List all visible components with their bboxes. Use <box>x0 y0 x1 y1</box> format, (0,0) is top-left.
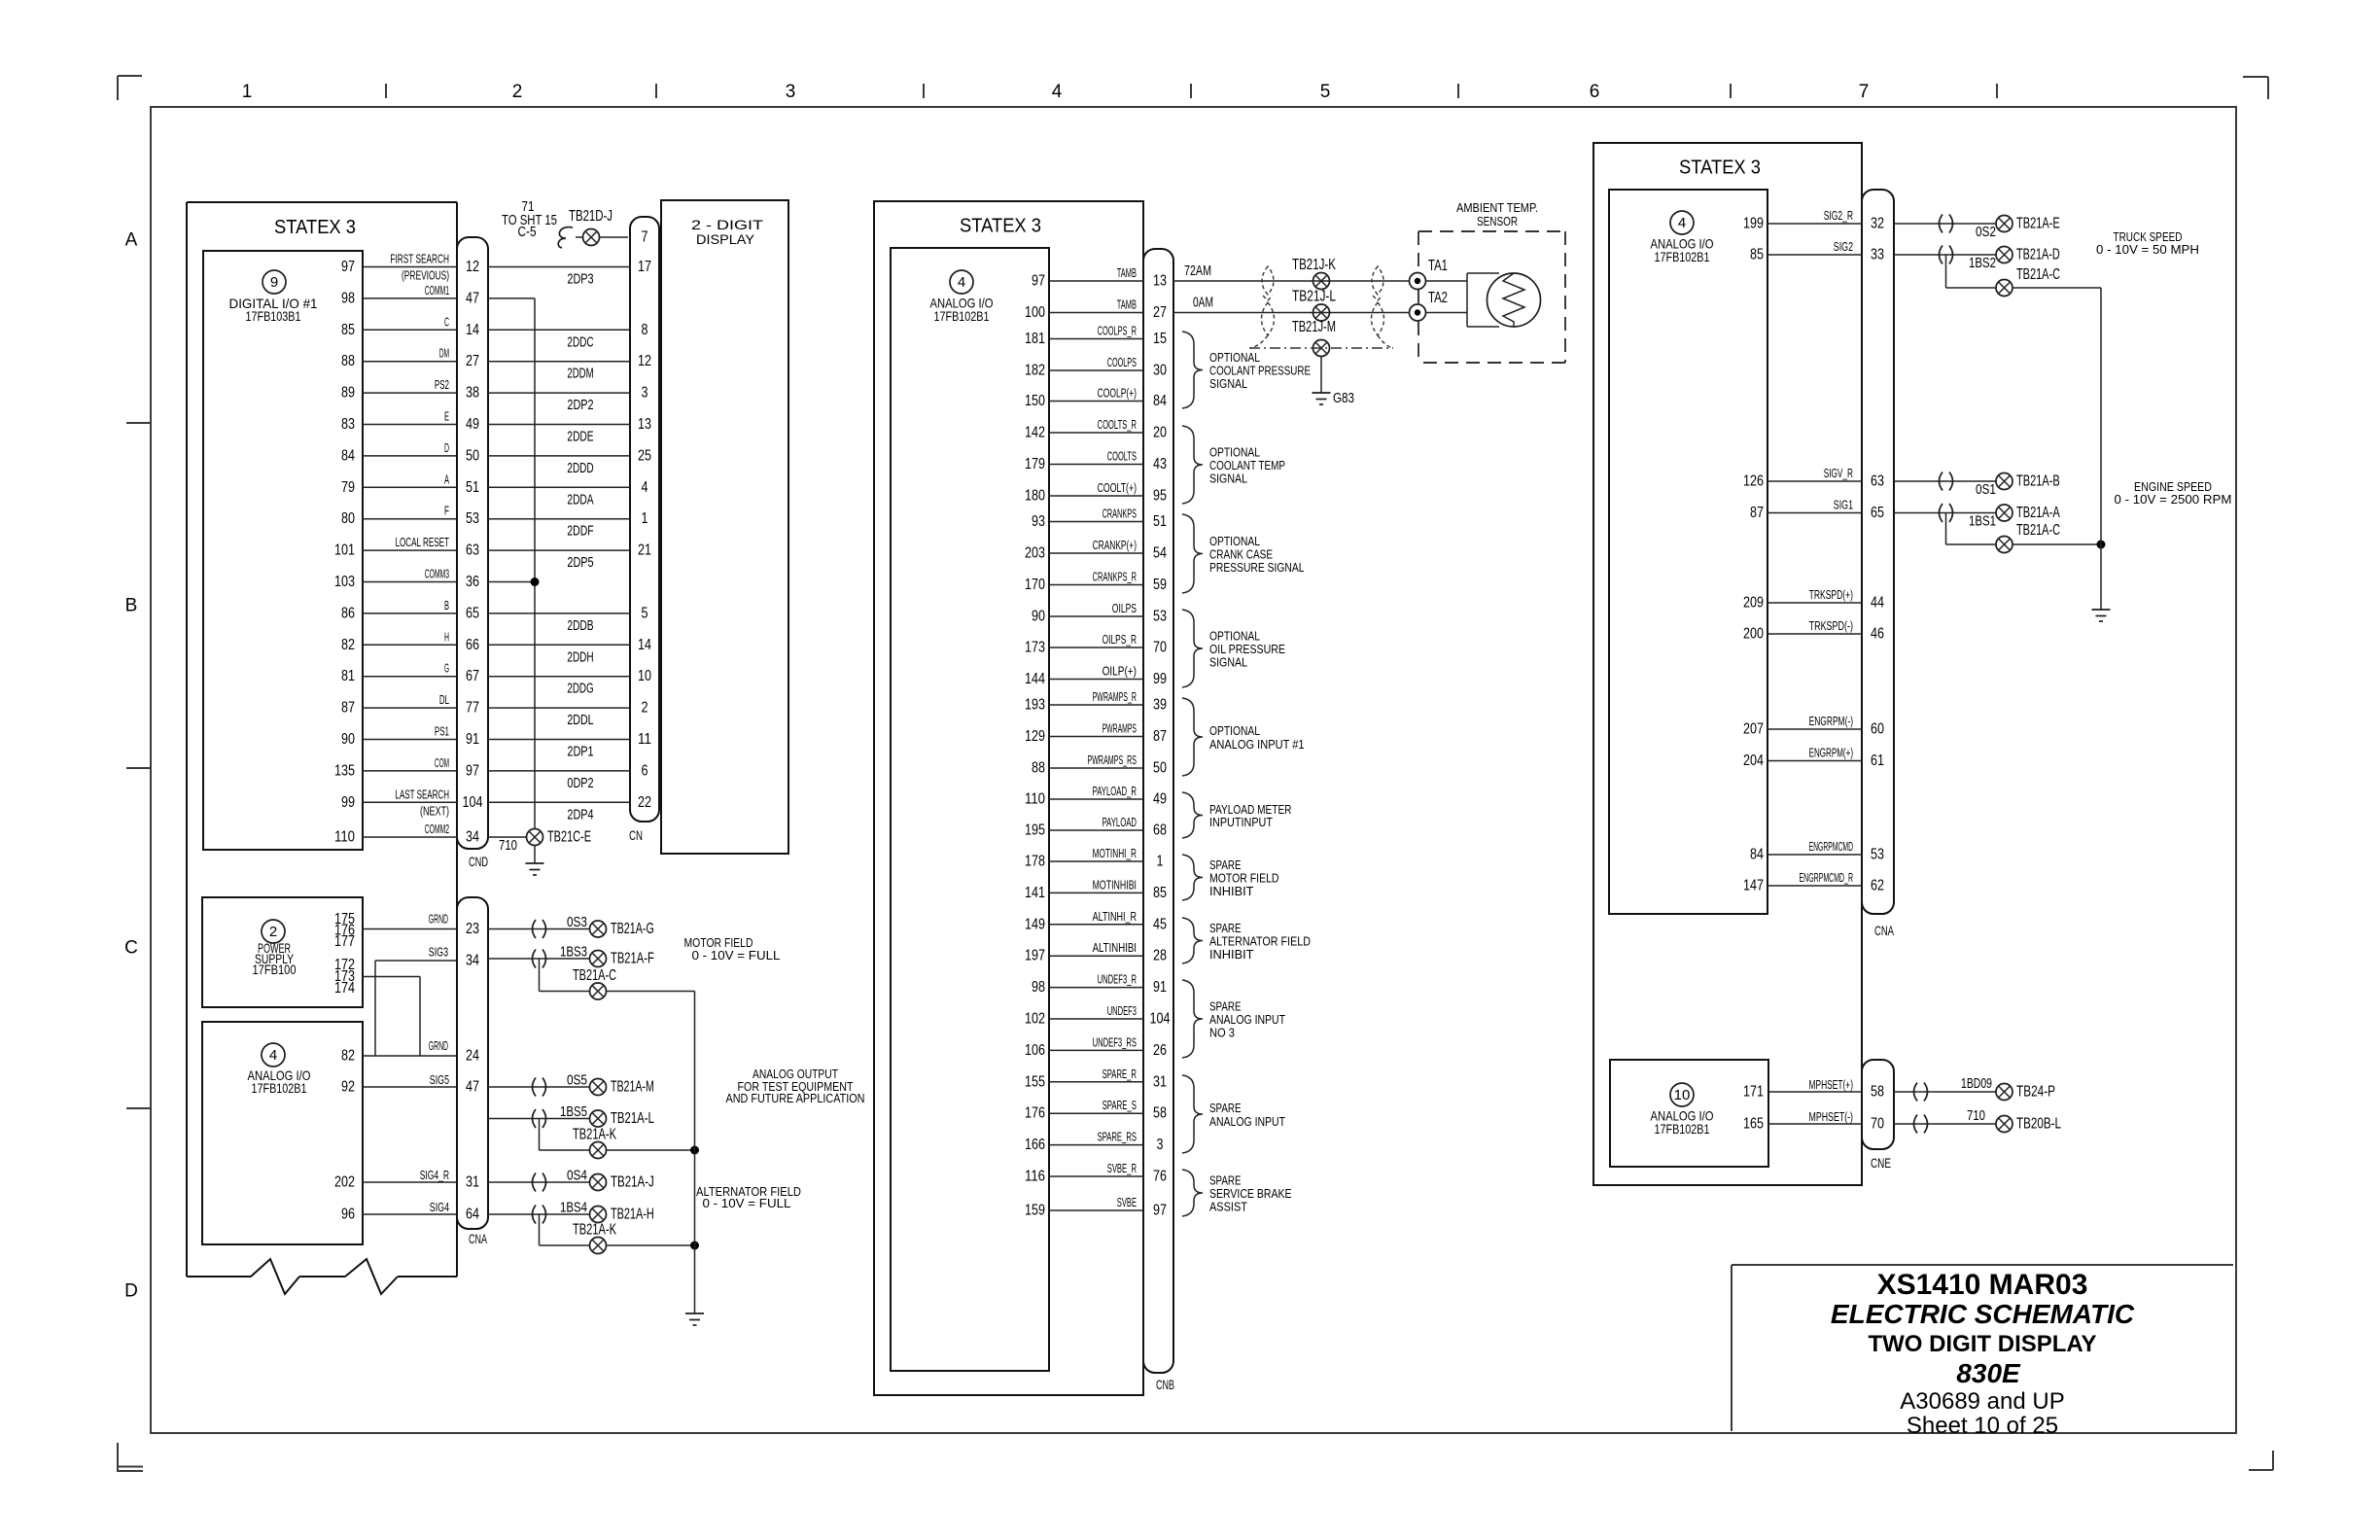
wire PWRAMPS_RS (pin 88 / CNB 50) <box>1032 752 1167 777</box>
svg-text:100: 100 <box>1025 304 1045 321</box>
svg-text:86: 86 <box>341 605 355 621</box>
svg-text:97: 97 <box>341 259 355 275</box>
wire ALTINHIBI (pin 197 / CNB 28) <box>1025 940 1167 964</box>
svg-text:2DDF: 2DDF <box>567 523 593 540</box>
svg-text:209: 209 <box>1743 595 1764 612</box>
svg-text:61: 61 <box>1871 752 1884 769</box>
wire C (pin 85 / CND 14) <box>341 314 648 350</box>
svg-text:12: 12 <box>466 259 479 275</box>
svg-text:50: 50 <box>466 447 479 464</box>
svg-text:17: 17 <box>638 259 651 275</box>
svg-text:25: 25 <box>638 447 651 464</box>
svg-text:181: 181 <box>1025 331 1045 347</box>
lamp TB21A-E (0S2) <box>1894 215 2060 241</box>
svg-text:104: 104 <box>463 794 483 811</box>
label ALTERNATOR FIELD 0-10V <box>696 1184 801 1210</box>
svg-text:67: 67 <box>466 668 479 684</box>
svg-text:2DDC: 2DDC <box>567 333 593 350</box>
svg-text:46: 46 <box>1871 626 1884 643</box>
wire ALTINHI_R (pin 149 / CNB 45) <box>1025 909 1167 933</box>
note SPARE ANALOG INPUT <box>1182 1075 1285 1153</box>
svg-text:1BS4: 1BS4 <box>560 1200 587 1216</box>
svg-text:155: 155 <box>1025 1073 1045 1090</box>
wire G (pin 81 / CND 67) <box>341 661 651 697</box>
svg-text:SIGNAL: SIGNAL <box>1209 655 1247 670</box>
svg-text:149: 149 <box>1025 916 1045 932</box>
note OPTIONAL COOLANT TEMP SIGNAL <box>1182 426 1285 504</box>
svg-text:182: 182 <box>1025 363 1045 379</box>
svg-text:103: 103 <box>334 574 355 590</box>
wire COMM1 (pin 98 / CND 47) <box>341 283 479 307</box>
svg-text:104: 104 <box>1150 1011 1171 1028</box>
IC (4) ANALOG I/O 17FB102B1 (left) <box>202 1022 363 1244</box>
note SPARE MOTOR FIELD INHIBIT <box>1182 855 1279 900</box>
svg-text:65: 65 <box>1871 505 1884 521</box>
svg-text:0DP2: 0DP2 <box>567 775 593 791</box>
svg-text:STATEX 3: STATEX 3 <box>274 217 356 238</box>
label TRUCK SPEED <box>2096 229 2199 257</box>
svg-text:1BS1: 1BS1 <box>1969 513 1996 530</box>
svg-text:PAYLOAD_R: PAYLOAD_R <box>1093 784 1137 798</box>
svg-text:110: 110 <box>334 829 355 846</box>
svg-text:0 - 10V = FULL: 0 - 10V = FULL <box>692 948 781 962</box>
svg-text:32: 32 <box>1871 216 1884 232</box>
svg-text:D: D <box>444 440 449 455</box>
svg-text:B: B <box>444 598 449 612</box>
lamp TB21A-D (1BS2) <box>1894 246 2060 272</box>
note SPARE SERVICE BRAKE ASSIST <box>1182 1170 1292 1216</box>
svg-text:DL: DL <box>439 692 449 707</box>
svg-text:MPHSET(+): MPHSET(+) <box>1809 1077 1854 1092</box>
connector CND <box>457 237 488 869</box>
wire SIG2 (pin 85 / CNA 33) <box>1750 239 1884 263</box>
svg-text:SIGNAL: SIGNAL <box>1209 472 1247 486</box>
svg-text:82: 82 <box>341 637 355 653</box>
svg-text:199: 199 <box>1743 216 1764 232</box>
lamp TB21A-K (upper) <box>540 1119 700 1159</box>
svg-text:INHIBIT: INHIBIT <box>1209 947 1254 962</box>
svg-text:2DDD: 2DDD <box>567 460 593 476</box>
svg-text:12: 12 <box>638 353 651 369</box>
svg-text:14: 14 <box>466 322 479 338</box>
svg-text:Sheet 10 of 25: Sheet 10 of 25 <box>1907 1413 2058 1439</box>
svg-text:2DDB: 2DDB <box>567 617 593 634</box>
svg-text:TB21J-L: TB21J-L <box>1292 289 1336 305</box>
svg-text:TB24-P: TB24-P <box>2016 1084 2055 1101</box>
svg-text:ENGRPM(+): ENGRPM(+) <box>1809 746 1853 760</box>
svg-text:TB21D-J: TB21D-J <box>569 208 612 225</box>
svg-text:21: 21 <box>638 542 651 559</box>
svg-text:82: 82 <box>341 1048 355 1065</box>
svg-text:LOCAL RESET: LOCAL RESET <box>396 535 450 549</box>
svg-text:70: 70 <box>1153 640 1167 656</box>
svg-text:TB21A-K: TB21A-K <box>573 1222 616 1239</box>
svg-text:COOLTS_R: COOLTS_R <box>1098 417 1137 432</box>
svg-text:24: 24 <box>466 1048 479 1065</box>
wire UNDEF3_RS (pin 106 / CNB 26) <box>1025 1034 1167 1059</box>
label ANALOG OUTPUT FOR TEST EQUIPMENT <box>726 1067 865 1105</box>
lamp TB21J-M (shield) <box>1249 319 1393 357</box>
svg-text:58: 58 <box>1153 1105 1167 1122</box>
svg-text:INPUTINPUT: INPUTINPUT <box>1209 815 1273 829</box>
svg-text:174: 174 <box>334 980 355 997</box>
wire F (pin 80 / CND 53) <box>341 504 648 540</box>
svg-text:166: 166 <box>1025 1137 1045 1153</box>
svg-text:53: 53 <box>1153 609 1167 625</box>
svg-text:SIGNAL: SIGNAL <box>1209 376 1247 391</box>
svg-text:NO 3: NO 3 <box>1209 1026 1235 1040</box>
svg-text:33: 33 <box>1871 247 1884 263</box>
svg-text:G: G <box>444 661 449 676</box>
svg-text:1BS3: 1BS3 <box>560 944 587 961</box>
svg-text:193: 193 <box>1025 697 1045 714</box>
svg-text:10: 10 <box>1674 1087 1691 1103</box>
svg-text:20: 20 <box>1153 425 1167 441</box>
svg-text:STATEX 3: STATEX 3 <box>1679 157 1761 179</box>
svg-text:89: 89 <box>341 385 355 402</box>
module STATEX 3 (middle) <box>874 201 1143 1395</box>
svg-text:TB21A-A: TB21A-A <box>2016 505 2060 521</box>
svg-text:0S5: 0S5 <box>567 1072 587 1089</box>
svg-text:17FB100: 17FB100 <box>253 962 297 977</box>
wire TAMB (pin 100 / CNB 27) <box>1025 297 1167 322</box>
svg-text:COOLPS: COOLPS <box>1107 355 1137 369</box>
IC (4) ANALOG I/O 17FB102B1 (right) <box>1609 190 1767 914</box>
svg-text:126: 126 <box>1743 473 1764 490</box>
wire DL (pin 87 / CND 77) <box>341 692 648 728</box>
svg-text:ASSIST: ASSIST <box>1209 1200 1247 1214</box>
svg-text:85: 85 <box>1750 247 1764 263</box>
svg-text:180: 180 <box>1025 488 1045 505</box>
svg-text:30: 30 <box>1153 363 1167 379</box>
IC (4) ANALOG I/O 17FB102B1 (middle) <box>891 248 1049 1371</box>
wire lamp-common vertical (right) <box>2100 288 2102 610</box>
wire PAYLOAD (pin 195 / CNB 68) <box>1025 815 1167 839</box>
connector CN (display) <box>629 217 659 843</box>
svg-text:ENGRPMCMD: ENGRPMCMD <box>1809 839 1853 854</box>
svg-text:63: 63 <box>466 542 479 559</box>
svg-text:2: 2 <box>269 924 277 940</box>
svg-text:2DP4: 2DP4 <box>567 806 593 822</box>
svg-text:COMM3: COMM3 <box>425 567 449 581</box>
lamp TB21J-L <box>1292 289 1336 322</box>
svg-text:4: 4 <box>1678 215 1686 231</box>
svg-text:4: 4 <box>958 274 965 291</box>
svg-text:FIRST SEARCH: FIRST SEARCH <box>390 252 449 266</box>
svg-text:PS2: PS2 <box>435 377 449 392</box>
svg-text:TB21A-C: TB21A-C <box>2016 266 2060 283</box>
svg-text:1: 1 <box>242 82 253 102</box>
lamp TB21J-K <box>1292 257 1336 290</box>
svg-text:MPHSET(-): MPHSET(-) <box>1809 1109 1854 1124</box>
svg-text:1: 1 <box>1157 854 1164 870</box>
svg-text:ANALOG INPUT: ANALOG INPUT <box>1209 1114 1285 1129</box>
svg-text:27: 27 <box>1153 304 1167 321</box>
svg-text:2: 2 <box>642 700 648 717</box>
svg-text:76: 76 <box>1153 1169 1167 1185</box>
svg-text:87: 87 <box>1153 728 1167 745</box>
svg-text:COMM2: COMM2 <box>425 822 449 836</box>
svg-text:CN: CN <box>629 827 643 843</box>
svg-text:0 - 10V = 50 MPH: 0 - 10V = 50 MPH <box>2096 242 2199 257</box>
svg-text:49: 49 <box>1153 791 1167 808</box>
lamp TB20B-L (710) <box>1894 1107 2061 1134</box>
connector CNA (left) <box>457 897 488 1246</box>
module 2-DIGIT DISPLAY <box>661 200 788 854</box>
svg-text:TB21A-B: TB21A-B <box>2016 473 2060 490</box>
svg-text:AND FUTURE APPLICATION: AND FUTURE APPLICATION <box>726 1091 865 1105</box>
svg-text:13: 13 <box>1153 273 1167 290</box>
lamp TB21A-K (lower) <box>540 1214 700 1254</box>
svg-text:SIG2_R: SIG2_R <box>1824 208 1853 223</box>
svg-text:0S4: 0S4 <box>567 1168 587 1184</box>
wire SIGV_R (pin 126 / CNA 63) <box>1743 466 1884 490</box>
svg-text:G83: G83 <box>1333 390 1354 406</box>
wire COMM bus (CND 47/36) vertical <box>488 298 540 829</box>
svg-text:C-5: C-5 <box>518 224 537 240</box>
svg-text:TB21A-M: TB21A-M <box>611 1079 654 1096</box>
wire PAYLOAD_R (pin 110 / CNB 49) <box>1025 784 1167 808</box>
svg-text:CND: CND <box>469 854 488 869</box>
svg-text:2: 2 <box>512 82 523 102</box>
svg-text:2DP5: 2DP5 <box>567 554 593 571</box>
svg-text:176: 176 <box>1025 1105 1045 1122</box>
svg-text:17FB102B1: 17FB102B1 <box>1655 1121 1710 1137</box>
svg-text:38: 38 <box>466 385 479 402</box>
svg-text:3: 3 <box>1157 1137 1164 1153</box>
svg-text:171: 171 <box>1743 1084 1764 1101</box>
svg-text:TB21J-M: TB21J-M <box>1292 319 1336 335</box>
wire TRKSPD(+) (pin 209 / CNA 44) <box>1743 587 1884 612</box>
wire MPHSET(-) (pin 165 / CNE 70) <box>1743 1109 1884 1133</box>
svg-text:50: 50 <box>1153 760 1167 777</box>
lamp TB21D-J (71 TO SHT 15 C-5) <box>502 198 648 248</box>
wire E (pin 83 / CND 49) <box>341 409 651 445</box>
svg-text:A: A <box>444 472 449 486</box>
svg-text:68: 68 <box>1153 822 1167 839</box>
svg-text:DISPLAY: DISPLAY <box>696 231 755 247</box>
svg-text:PRESSURE SIGNAL: PRESSURE SIGNAL <box>1209 560 1305 575</box>
svg-text:1BD09: 1BD09 <box>1961 1075 1992 1092</box>
wire B (pin 86 / CND 65) <box>341 598 648 634</box>
svg-text:2DDG: 2DDG <box>567 681 593 697</box>
svg-text:4: 4 <box>269 1047 277 1064</box>
wire OILPS (pin 90 / CNB 53) <box>1032 601 1167 625</box>
svg-text:TB21A-C: TB21A-C <box>2016 522 2060 539</box>
svg-text:SIG2: SIG2 <box>1834 239 1853 254</box>
svg-text:UNDEF3: UNDEF3 <box>1107 1003 1137 1018</box>
wire 0AM (CNB 27 to TA2) <box>1173 295 1410 313</box>
svg-text:TRKSPD(-): TRKSPD(-) <box>1809 618 1853 633</box>
svg-text:83: 83 <box>341 416 355 433</box>
svg-text:28: 28 <box>1153 948 1167 964</box>
svg-text:ALTINHI_R: ALTINHI_R <box>1093 909 1137 924</box>
svg-text:5: 5 <box>642 605 648 621</box>
svg-text:TB21A-G: TB21A-G <box>611 921 654 937</box>
wire SPARE_R (pin 155 / CNB 31) <box>1025 1067 1167 1091</box>
svg-text:97: 97 <box>466 762 479 779</box>
ground (right lamp common) <box>2092 610 2111 621</box>
lamp TB21A-C (motor field) <box>540 959 695 999</box>
svg-text:101: 101 <box>334 542 355 559</box>
svg-text:PWRAMPS_RS: PWRAMPS_RS <box>1088 752 1137 767</box>
svg-text:GRND: GRND <box>429 912 448 927</box>
svg-text:4: 4 <box>1052 82 1063 102</box>
svg-text:SIGV_R: SIGV_R <box>1824 466 1853 480</box>
IC (10) ANALOG I/O 17FB102B1 <box>1610 1060 1768 1167</box>
svg-text:147: 147 <box>1743 878 1764 894</box>
svg-text:99: 99 <box>341 794 355 811</box>
svg-text:ENGRPM(-): ENGRPM(-) <box>1809 714 1853 728</box>
svg-text:TB21A-C: TB21A-C <box>573 967 616 984</box>
svg-text:9: 9 <box>270 274 278 291</box>
svg-text:SPARE_R: SPARE_R <box>1102 1067 1137 1081</box>
wire LOCAL RESET (pin 101 / CND 63) <box>334 535 651 571</box>
svg-text:110: 110 <box>1025 791 1045 808</box>
svg-text:2DDE: 2DDE <box>567 429 593 445</box>
svg-text:45: 45 <box>1153 916 1167 932</box>
svg-text:CRANKPS: CRANKPS <box>1102 507 1137 521</box>
wire SIG2_R (pin 199 / CNA 32) <box>1743 208 1884 232</box>
svg-text:TB21A-J: TB21A-J <box>611 1174 654 1191</box>
svg-text:UNDEF3_R: UNDEF3_R <box>1098 972 1137 987</box>
svg-text:3: 3 <box>786 82 796 102</box>
svg-text:51: 51 <box>466 479 479 496</box>
wire ENGRPM(-) (pin 207 / CNA 60) <box>1743 714 1884 738</box>
svg-text:2DP2: 2DP2 <box>567 397 593 413</box>
svg-text:178: 178 <box>1025 854 1045 870</box>
svg-text:60: 60 <box>1871 721 1884 738</box>
svg-text:31: 31 <box>1153 1073 1167 1090</box>
wire ENGRPMCMD (pin 84 / CNA 53) <box>1750 839 1884 863</box>
svg-text:0S3: 0S3 <box>567 914 587 930</box>
svg-text:4: 4 <box>642 479 648 496</box>
lamp TB21A-C (engine speed) <box>1946 513 2106 553</box>
svg-text:150: 150 <box>1025 393 1045 409</box>
svg-text:17FB103B1: 17FB103B1 <box>246 308 301 324</box>
wire SVBE (pin 159 / CNB 97) <box>1025 1195 1167 1219</box>
svg-text:84: 84 <box>1750 847 1764 863</box>
svg-text:TA1: TA1 <box>1428 258 1448 274</box>
lamp TB21A-L (1BS5) <box>488 1103 654 1128</box>
lamp TB24-P (1BD09) <box>1894 1075 2055 1102</box>
svg-text:84: 84 <box>341 447 355 464</box>
wire DM (pin 88 / CND 27) <box>341 346 651 382</box>
svg-text:TB21A-E: TB21A-E <box>2016 216 2060 232</box>
svg-text:17FB102B1: 17FB102B1 <box>1655 249 1710 264</box>
svg-text:SIG5: SIG5 <box>430 1072 449 1087</box>
svg-text:2DDL: 2DDL <box>567 712 593 728</box>
wire GRND (AIO 82 / CNA 24) <box>363 1038 479 1065</box>
svg-text:43: 43 <box>1153 456 1167 472</box>
svg-text:98: 98 <box>341 290 355 306</box>
wire SIG5 (AIO 92 / CNA 47) <box>363 1072 479 1096</box>
wire PS1 (pin 90 / CND 91) <box>341 724 651 760</box>
svg-text:UNDEF3_RS: UNDEF3_RS <box>1093 1034 1137 1049</box>
svg-text:MOTINHI_R: MOTINHI_R <box>1093 846 1137 860</box>
svg-text:COOLPS_R: COOLPS_R <box>1098 324 1137 338</box>
lamp TB21A-M (0S5) <box>488 1072 654 1097</box>
svg-text:STATEX 3: STATEX 3 <box>960 216 1041 237</box>
svg-text:F: F <box>444 504 449 518</box>
svg-text:7: 7 <box>642 229 648 246</box>
svg-text:97: 97 <box>1153 1203 1167 1219</box>
wire SIG3 (CNA 34) <box>375 945 479 1057</box>
wire SIG1 (pin 87 / CNA 65) <box>1750 498 1884 522</box>
svg-text:B: B <box>125 596 138 616</box>
svg-text:A30689 and UP: A30689 and UP <box>1900 1388 2064 1415</box>
svg-text:OILPS_R: OILPS_R <box>1102 632 1137 647</box>
wire PWRAMPS_R (pin 193 / CNB 39) <box>1025 689 1167 714</box>
lamp TB21A-J (0S4) <box>488 1168 654 1192</box>
plug symbol (right twist) <box>1372 266 1393 348</box>
svg-text:10: 10 <box>638 668 651 684</box>
svg-text:91: 91 <box>466 731 479 748</box>
wire MPHSET(+) (pin 171 / CNE 58) <box>1743 1077 1884 1101</box>
wire SPARE_RS (pin 166 / CNB 3) <box>1025 1130 1164 1154</box>
svg-text:93: 93 <box>1032 513 1045 530</box>
svg-text:7: 7 <box>1859 82 1870 102</box>
svg-text:MOTINHIBI: MOTINHIBI <box>1093 877 1137 892</box>
svg-text:49: 49 <box>466 416 479 433</box>
svg-text:CRANKPS_R: CRANKPS_R <box>1093 570 1137 584</box>
svg-text:84: 84 <box>1153 393 1167 409</box>
svg-text:173: 173 <box>1025 640 1045 656</box>
svg-text:SIG3: SIG3 <box>429 945 448 960</box>
svg-text:53: 53 <box>466 510 479 527</box>
svg-text:TB20B-L: TB20B-L <box>2016 1116 2061 1133</box>
svg-text:72AM: 72AM <box>1184 262 1211 279</box>
terminal TA2 <box>1410 290 1449 321</box>
svg-text:TWO DIGIT DISPLAY: TWO DIGIT DISPLAY <box>1868 1331 2096 1357</box>
svg-text:11: 11 <box>638 731 651 748</box>
svg-text:2DP1: 2DP1 <box>567 744 593 760</box>
wire H (pin 82 / CND 66) <box>341 629 651 665</box>
svg-text:144: 144 <box>1025 671 1045 687</box>
svg-text:(NEXT): (NEXT) <box>420 803 449 818</box>
svg-text:15: 15 <box>1153 331 1167 347</box>
svg-text:710: 710 <box>499 837 517 854</box>
note SPARE ANALOG INPUT NO 3 <box>1182 980 1285 1058</box>
wire 72AM (CNB 13 to TA1) <box>1173 262 1410 281</box>
svg-text:177: 177 <box>334 933 355 950</box>
connector CNE <box>1862 1060 1894 1171</box>
svg-text:81: 81 <box>341 668 355 684</box>
svg-text:98: 98 <box>1032 979 1045 996</box>
svg-text:165: 165 <box>1743 1116 1764 1133</box>
svg-text:(PREVIOUS): (PREVIOUS) <box>402 268 449 283</box>
svg-text:66: 66 <box>466 637 479 653</box>
svg-text:116: 116 <box>1025 1169 1045 1185</box>
svg-text:SPARE_S: SPARE_S <box>1102 1098 1137 1112</box>
svg-text:TB21A-H: TB21A-H <box>611 1207 654 1223</box>
svg-text:XS1410 MAR03: XS1410 MAR03 <box>1877 1269 2088 1301</box>
wire SIG4_R (AIO 202 / CNA 31) <box>363 1168 479 1191</box>
svg-text:2DDM: 2DDM <box>567 366 593 382</box>
lamp TB21A-A (1BS1) <box>1894 504 2060 530</box>
svg-text:51: 51 <box>1153 513 1167 530</box>
wire LAST SEARCH (pin 99 / CND 104) <box>341 787 651 822</box>
svg-text:87: 87 <box>1750 505 1764 521</box>
svg-text:0S1: 0S1 <box>1976 481 1996 498</box>
wire COOLT(+) (pin 180 / CNB 95) <box>1025 480 1167 505</box>
svg-text:44: 44 <box>1871 595 1884 612</box>
svg-text:OILP(+): OILP(+) <box>1102 664 1137 679</box>
wire COOLPS (pin 182 / CNB 30) <box>1025 355 1167 379</box>
wire COOLTS_R (pin 142 / CNB 20) <box>1025 417 1167 441</box>
svg-text:5: 5 <box>1320 82 1331 102</box>
wire CRANKPS_R (pin 170 / CNB 59) <box>1025 570 1167 594</box>
